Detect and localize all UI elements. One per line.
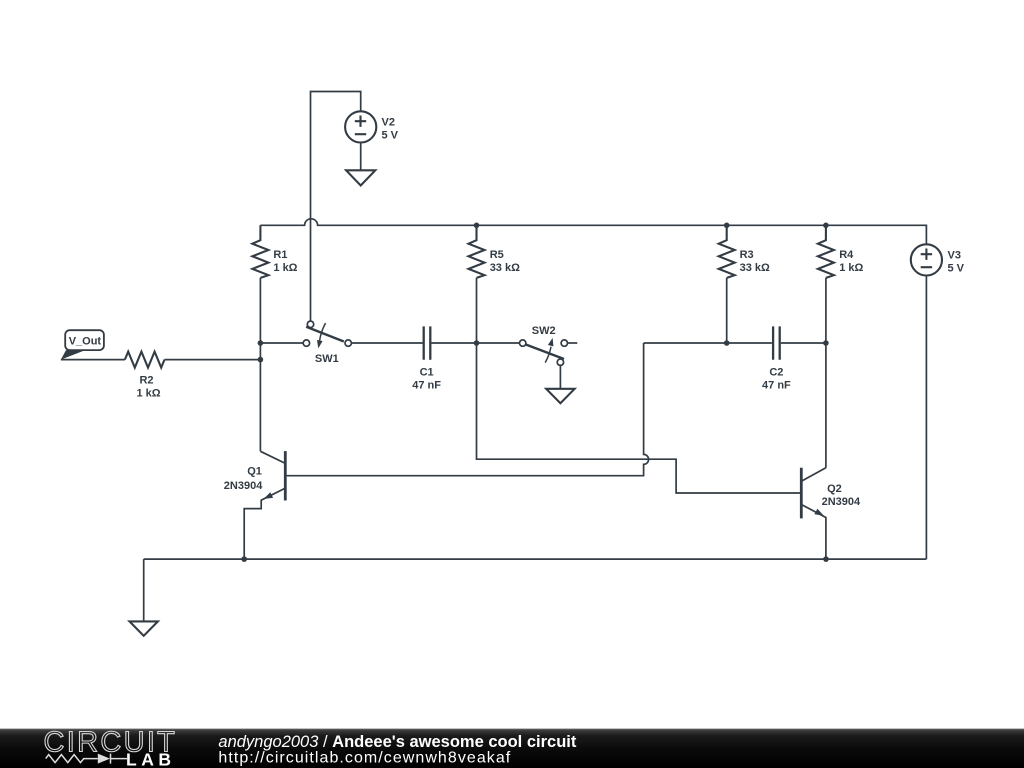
junction R3 top	[724, 223, 730, 229]
junction Q1 emitter / bottom rail	[241, 556, 247, 562]
svg-text:2N3904: 2N3904	[822, 496, 861, 508]
wire node to SW1 left terminal	[260, 342, 303, 344]
resistor R1	[252, 225, 268, 278]
wire R2 to Q1 collector node	[165, 359, 261, 361]
wire cross-coupling C2-left down to Q1 base (hop over R5 wire)	[287, 343, 649, 476]
wire C1 to SW2	[431, 342, 519, 344]
wire V2 bottom lead	[360, 143, 362, 171]
wire C2 to R4 node	[781, 342, 826, 344]
V3 minus sign	[921, 266, 932, 268]
svg-text:Q1: Q1	[247, 466, 262, 478]
voltage source V3	[911, 244, 942, 275]
wire SW1 to C1	[351, 342, 422, 344]
svg-text:33 kΩ: 33 kΩ	[740, 262, 770, 274]
transistor Q1 2N3904	[244, 451, 286, 559]
svg-text:1 kΩ: 1 kΩ	[839, 262, 863, 274]
capacitor C1	[424, 326, 431, 359]
wire C2 left lead	[644, 342, 772, 344]
ground below SW2	[546, 389, 574, 403]
svg-text:C1: C1	[420, 367, 434, 379]
wire R5 bottom then right then down to Q2 base	[477, 278, 801, 493]
svg-text:V_Out: V_Out	[69, 336, 102, 348]
junction R4 top	[823, 223, 829, 229]
junction R5 top	[474, 223, 480, 229]
svg-text:5 V: 5 V	[948, 262, 965, 274]
ground below V2	[346, 170, 375, 185]
svg-text:V2: V2	[382, 116, 395, 128]
wire V2 top lead to SW1 throw	[311, 92, 361, 322]
V3 plus sign	[921, 249, 932, 260]
svg-text:R3: R3	[740, 249, 754, 261]
wire R1 bottom to Q1 collector	[259, 278, 261, 451]
svg-text:1 kΩ: 1 kΩ	[136, 387, 160, 399]
wire R3 bottom	[726, 278, 728, 343]
svg-text:V3: V3	[948, 249, 961, 261]
ground bottom left	[130, 621, 158, 635]
wire V_Out to R2	[61, 359, 125, 361]
voltage source V2	[345, 111, 376, 142]
footer bar	[0, 729, 1024, 768]
svg-text:R1: R1	[273, 249, 287, 261]
svg-text:C2: C2	[769, 367, 783, 379]
svg-text:1 kΩ: 1 kΩ	[273, 262, 297, 274]
svg-text:SW2: SW2	[532, 325, 556, 337]
capacitor C2	[773, 326, 780, 359]
node V_Out flag	[61, 330, 104, 359]
svg-text:R4: R4	[839, 249, 854, 261]
junction R1 bottom / SW1 wire	[258, 340, 264, 346]
svg-text:LAB: LAB	[126, 749, 175, 768]
svg-text:Q2: Q2	[827, 483, 842, 495]
svg-text:http://circuitlab.com/cewnwh8v: http://circuitlab.com/cewnwh8veakaf	[218, 750, 511, 767]
wire bottom rail	[144, 558, 927, 560]
wire SW2 throw to ground	[559, 365, 561, 388]
junction R2 / collector node	[258, 357, 264, 363]
svg-text:SW1: SW1	[315, 353, 339, 365]
wire V3 bottom lead	[925, 276, 927, 560]
logo resistor-diode squiggle	[46, 754, 127, 764]
svg-text:47 nF: 47 nF	[412, 380, 441, 392]
wire bottom ground stem	[143, 559, 145, 621]
junction R4 bottom / C2 right	[823, 340, 829, 346]
junction Q2 emitter / bottom rail	[823, 556, 829, 562]
svg-text:33 kΩ: 33 kΩ	[490, 262, 520, 274]
junction R5 / C1 wire	[474, 340, 480, 346]
resistor R4	[818, 225, 834, 278]
svg-text:2N3904: 2N3904	[224, 480, 263, 492]
V2 plus sign	[355, 116, 366, 127]
svg-text:andyngo2003 / Andeee's awesome: andyngo2003 / Andeee's awesome cool circ…	[218, 733, 576, 751]
resistor R2	[125, 352, 165, 368]
svg-text:R5: R5	[490, 249, 504, 261]
V2 minus sign	[355, 133, 366, 135]
resistor R3	[719, 225, 735, 278]
svg-text:47 nF: 47 nF	[762, 380, 791, 392]
resistor R5	[469, 225, 485, 278]
transistor Q2 2N3904	[801, 468, 826, 559]
svg-text:R2: R2	[139, 374, 153, 386]
svg-text:5 V: 5 V	[382, 129, 399, 141]
wire top rail with hop over V2 feed	[260, 219, 926, 244]
junction R3 bottom / C2 wire	[724, 340, 730, 346]
wire R4 bottom to Q2 collector	[825, 278, 827, 468]
switch SW1	[303, 321, 351, 348]
switch SW2	[520, 338, 578, 366]
